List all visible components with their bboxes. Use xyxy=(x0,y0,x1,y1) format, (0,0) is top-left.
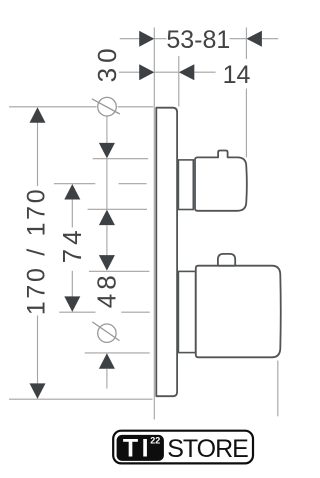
arrow 14 left xyxy=(139,64,154,80)
extension line x246.4 upper xyxy=(245,28,247,60)
chain line below diameter xyxy=(106,116,108,143)
chain line 74 upper xyxy=(71,200,73,228)
arrow 53-81 left xyxy=(139,31,154,47)
extension line top y106.8 xyxy=(9,106,153,108)
extension line y183.7 xyxy=(54,183,147,185)
upper knob with tab xyxy=(195,151,247,211)
diameter symbol bottom xyxy=(92,322,119,343)
chain line 74 lower xyxy=(71,271,73,297)
chain line between xyxy=(106,159,108,210)
svg-text:STORE: STORE xyxy=(167,435,248,463)
dimension 170/170 chain xyxy=(37,122,39,383)
chain line xyxy=(106,225,108,256)
arrow 170/170 down xyxy=(30,383,46,399)
svg-text:53-81: 53-81 xyxy=(166,26,230,54)
lower knob xyxy=(196,266,281,358)
lower sleeve xyxy=(178,271,195,352)
extension line y312.2 xyxy=(59,311,150,313)
svg-text:TI: TI xyxy=(123,435,152,463)
svg-text:14: 14 xyxy=(223,61,251,89)
extension line y158.7 xyxy=(93,158,149,160)
svg-text:22: 22 xyxy=(150,435,160,445)
chain line below xyxy=(106,369,108,389)
arrow dia30 down xyxy=(99,143,115,159)
svg-text:48: 48 xyxy=(92,271,122,308)
extension line y271.3 xyxy=(89,270,150,272)
lower knob button xyxy=(218,254,235,266)
upper sleeve xyxy=(178,160,193,210)
dimension 53-81 line xyxy=(120,38,278,40)
logo TI box xyxy=(117,435,164,461)
arrow 74 up xyxy=(64,184,80,200)
extension line bottom y399.2 xyxy=(9,398,153,400)
arrow dia30 up xyxy=(99,210,115,226)
arrow 53-81 right xyxy=(246,31,262,47)
diameter symbol top xyxy=(92,97,120,116)
svg-text:30: 30 xyxy=(92,43,122,82)
extension line below lower knob xyxy=(277,361,279,417)
svg-text:74: 74 xyxy=(57,226,87,263)
arrow 48 down xyxy=(99,255,115,271)
svg-text:170 / 170: 170 / 170 xyxy=(22,187,50,316)
plate escutcheon xyxy=(156,108,177,397)
extension line y352.9 xyxy=(85,352,150,354)
extension line x178.8 xyxy=(178,56,180,107)
arrow 170/170 up xyxy=(30,107,46,123)
extension line x246.4 lower xyxy=(245,89,247,158)
logo outer box xyxy=(113,431,253,464)
extension line y209.3 xyxy=(88,208,147,210)
arrow 48 up xyxy=(99,353,115,369)
wall line xyxy=(153,28,155,420)
dimension 14 line xyxy=(119,71,216,73)
arrow 14 right xyxy=(179,64,195,80)
arrow 74 down xyxy=(64,296,80,312)
